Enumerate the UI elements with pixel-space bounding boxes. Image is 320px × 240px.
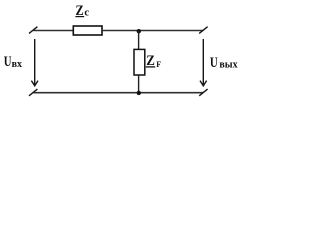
input terminal slash bottom-left: [29, 89, 37, 96]
label Uвх (input voltage): [4, 54, 22, 70]
svg-text:вых: вых: [219, 60, 237, 71]
label Uвых (output voltage): [210, 55, 238, 71]
svg-text:вх: вх: [12, 59, 22, 70]
bottom wire: [34, 92, 204, 94]
node B (bottom junction dot): [137, 91, 141, 95]
output terminal slash bottom-right: [199, 89, 207, 96]
svg-text:U: U: [4, 54, 12, 70]
svg-text:с: с: [84, 7, 89, 18]
svg-text:U: U: [210, 55, 218, 71]
input terminal slash top-left: [29, 27, 37, 34]
node A (top junction dot): [137, 29, 141, 33]
top wire: [34, 30, 204, 32]
label Zc: [75, 3, 89, 19]
svg-text:F: F: [156, 60, 161, 69]
resistor Zc (series impedance box): [73, 26, 102, 35]
output terminal slash top-right: [199, 27, 207, 34]
wire (middle vertical, bottom segment): [138, 76, 140, 94]
output voltage arrow (right, pointing down): [200, 39, 207, 86]
input voltage arrow (left, pointing down): [31, 39, 38, 86]
wire (middle vertical, top segment): [138, 31, 140, 49]
resistor Zf (shunt impedance box): [134, 49, 145, 75]
label Zf: [146, 53, 162, 69]
